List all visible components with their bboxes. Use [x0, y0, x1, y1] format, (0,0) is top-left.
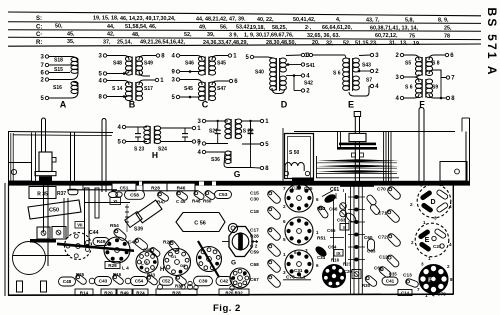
svg-text:E: E — [348, 100, 354, 110]
svg-text:39,: 39, — [207, 32, 215, 38]
svg-text:25,14,: 25,14, — [117, 40, 132, 46]
svg-text:S48: S48 — [113, 61, 122, 67]
svg-text:II: II — [343, 225, 346, 230]
svg-text:R28: R28 — [108, 263, 117, 268]
svg-text:49,: 49, — [199, 24, 207, 30]
svg-text:C78: C78 — [437, 292, 446, 298]
svg-text:S49: S49 — [144, 61, 153, 67]
svg-text:S7: S7 — [366, 78, 372, 84]
svg-text:S40: S40 — [255, 70, 264, 76]
svg-text:C63: C63 — [337, 218, 346, 223]
svg-text:43, 7,: 43, 7, — [366, 17, 380, 23]
svg-text:31,: 31, — [389, 41, 397, 47]
svg-text:Fig. 2: Fig. 2 — [213, 303, 241, 314]
svg-text:60,72,12,: 60,72,12, — [375, 33, 398, 39]
svg-text:S45: S45 — [217, 61, 226, 67]
svg-text:S43: S43 — [362, 63, 371, 69]
svg-text:B: B — [129, 100, 136, 110]
svg-text:R49: R49 — [97, 239, 106, 245]
svg-text:19, 15, 18,: 19, 15, 18, — [93, 16, 119, 22]
svg-text:R20: R20 — [104, 290, 113, 295]
svg-text:D: D — [281, 100, 288, 110]
svg-text:S:: S: — [36, 16, 42, 22]
svg-text:3: 3 — [283, 270, 286, 275]
svg-text:44, 48,21,42, 47, 39.: 44, 48,21,42, 47, 39. — [196, 17, 246, 23]
svg-text:7: 7 — [283, 186, 286, 191]
svg-text:VII: VII — [77, 223, 82, 228]
svg-text:C15: C15 — [250, 191, 259, 197]
svg-text:S24: S24 — [158, 147, 167, 153]
svg-text:R25: R25 — [76, 272, 85, 277]
svg-text:R62: R62 — [317, 206, 326, 211]
svg-text:19,18,: 19,18, — [250, 25, 265, 31]
svg-text:4: 4 — [449, 204, 452, 209]
svg-text:3 9,: 3 9, — [229, 32, 238, 38]
svg-text:S 14: S 14 — [112, 86, 123, 92]
svg-text:C50: C50 — [49, 208, 59, 214]
svg-text:A: A — [60, 100, 67, 110]
svg-text:L 3: L 3 — [141, 261, 148, 266]
svg-text:C72: C72 — [378, 235, 387, 241]
svg-text:C41: C41 — [386, 279, 395, 284]
svg-text:66,64,61,20,: 66,64,61,20, — [322, 25, 352, 31]
svg-text:R51: R51 — [317, 236, 326, 242]
svg-text:5,8,: 5,8, — [405, 18, 414, 24]
svg-text:C64: C64 — [328, 245, 337, 250]
svg-text:C63: C63 — [367, 249, 376, 254]
svg-text:R16: R16 — [331, 258, 340, 263]
svg-text:R:: R: — [36, 40, 42, 46]
svg-text:S 6: S 6 — [333, 71, 341, 77]
svg-text:1,: 1, — [244, 32, 249, 38]
svg-text:25,: 25, — [444, 26, 452, 32]
svg-text:C35: C35 — [389, 272, 397, 277]
svg-text:S 8: S 8 — [432, 61, 440, 67]
svg-text:46, 14,23, 49,17,30,24,: 46, 14,23, 49,17,30,24, — [120, 16, 176, 22]
svg-text:C28: C28 — [250, 234, 259, 240]
svg-text:3: 3 — [421, 262, 424, 267]
svg-text:20,: 20, — [312, 40, 320, 46]
svg-text:19.: 19. — [413, 41, 421, 47]
svg-text:1: 1 — [316, 230, 319, 235]
svg-text:R28: R28 — [172, 290, 181, 295]
svg-text:S5: S5 — [405, 61, 411, 67]
svg-text:3: 3 — [441, 182, 444, 187]
svg-text:3: 3 — [434, 216, 437, 221]
svg-text:C25: C25 — [304, 186, 313, 191]
svg-text:C43: C43 — [99, 279, 108, 284]
svg-text:R48: R48 — [192, 199, 201, 204]
svg-text:2: 2 — [411, 240, 414, 245]
svg-text:C23: C23 — [292, 186, 301, 191]
svg-text:4: 4 — [432, 293, 435, 298]
svg-text:S45: S45 — [184, 86, 193, 92]
svg-text:40, 22,: 40, 22, — [257, 17, 274, 23]
svg-text:7: 7 — [417, 287, 420, 292]
svg-text:C67: C67 — [250, 277, 259, 283]
svg-text:S47: S47 — [217, 86, 226, 92]
svg-text:49,21,26,54,16,42,: 49,21,26,54,16,42, — [140, 40, 185, 46]
svg-text:XI: XI — [113, 199, 117, 204]
svg-text:H: H — [152, 150, 158, 160]
svg-text:32,65, 36, 63.: 32,65, 36, 63. — [307, 33, 340, 39]
svg-text:IX: IX — [336, 251, 340, 256]
svg-text:58,25,: 58,25, — [272, 25, 287, 31]
svg-text:51,15,23,: 51,15,23, — [355, 41, 378, 47]
svg-text:C44: C44 — [89, 230, 99, 236]
svg-text:5: 5 — [420, 183, 423, 188]
svg-text:2·,: 2·, — [305, 25, 312, 31]
svg-text:56,: 56, — [220, 25, 228, 31]
svg-text:75: 75 — [409, 33, 415, 39]
svg-text:2: 2 — [410, 202, 413, 207]
svg-text:1: 1 — [425, 293, 428, 298]
svg-text:37,: 37, — [103, 39, 111, 45]
svg-text:R24: R24 — [136, 290, 145, 295]
svg-text:C 2: C 2 — [250, 244, 258, 250]
svg-text:R39: R39 — [175, 284, 184, 289]
svg-text:32,: 32, — [326, 40, 334, 46]
svg-text:51,58,54, 46,: 51,58,54, 46, — [125, 24, 157, 30]
svg-text:C17: C17 — [250, 228, 259, 234]
svg-text:C31: C31 — [294, 268, 303, 273]
svg-text:L 4: L 4 — [122, 266, 129, 272]
svg-text:2: 2 — [283, 204, 286, 209]
svg-text:C:: C: — [36, 24, 42, 30]
svg-text:48,: 48, — [132, 32, 140, 38]
svg-text:G: G — [231, 260, 236, 267]
svg-text:C71: C71 — [378, 211, 387, 217]
svg-text:24,36,33,47,48,29,: 24,36,33,47,48,29, — [203, 40, 248, 46]
svg-text:C52: C52 — [162, 279, 171, 284]
svg-text:S39: S39 — [134, 227, 143, 233]
svg-text:C13: C13 — [403, 273, 412, 279]
svg-text:50,41,42,: 50,41,42, — [293, 17, 316, 23]
svg-text:S36: S36 — [211, 157, 220, 163]
svg-text:13,: 13, — [400, 41, 408, 47]
svg-text:C70: C70 — [377, 187, 386, 193]
svg-text:S42: S42 — [304, 81, 313, 87]
svg-text:S15: S15 — [54, 67, 63, 73]
svg-text:28,30,48,50,: 28,30,48,50, — [266, 40, 296, 46]
svg-text:1: 1 — [283, 252, 286, 257]
svg-text:C39: C39 — [199, 279, 208, 285]
svg-text:S16: S16 — [53, 85, 62, 91]
svg-text:R 35: R 35 — [37, 192, 48, 198]
svg-text:C·: C· — [36, 32, 42, 38]
svg-text:C30: C30 — [250, 197, 259, 203]
svg-text:C18: C18 — [250, 209, 259, 215]
svg-text:C61: C61 — [330, 187, 339, 193]
svg-text:C48: C48 — [63, 279, 72, 284]
svg-text:C 56: C 56 — [194, 221, 206, 227]
svg-text:9,: 9, — [250, 33, 255, 39]
svg-text:4: 4 — [449, 242, 452, 247]
svg-text:8, 9,: 8, 9, — [438, 18, 449, 24]
svg-text:R14: R14 — [80, 290, 89, 295]
svg-text:S 23: S 23 — [134, 147, 145, 153]
svg-text:30,17,69,67,76,: 30,17,69,67,76, — [256, 33, 294, 39]
svg-text:52,: 52, — [343, 40, 351, 46]
svg-text:R28: R28 — [151, 186, 160, 192]
svg-text:6: 6 — [283, 219, 286, 224]
svg-text:S21: S21 — [209, 129, 218, 135]
svg-text:S 50: S 50 — [289, 150, 300, 156]
svg-text:60,38,71,41, 13, 14,: 60,38,71,41, 13, 14, — [370, 25, 418, 31]
svg-text:C65: C65 — [327, 228, 336, 233]
svg-text:G8: G8 — [180, 263, 186, 268]
svg-text:R33: R33 — [147, 273, 156, 278]
svg-text:C54: C54 — [135, 279, 144, 284]
svg-text:H: H — [160, 267, 164, 273]
svg-text:BS 571 A: BS 571 A — [485, 8, 499, 77]
svg-text:6: 6 — [316, 263, 319, 268]
svg-text:R49: R49 — [120, 290, 129, 295]
svg-text:D: D — [430, 199, 435, 206]
svg-text:5: 5 — [283, 237, 286, 242]
svg-text:52,: 52, — [184, 32, 192, 38]
svg-text:R30: R30 — [362, 283, 371, 288]
svg-text:5: 5 — [294, 250, 297, 255]
svg-text:1: 1 — [423, 220, 426, 225]
svg-text:S 22: S 22 — [243, 129, 254, 135]
svg-text:44,: 44, — [107, 24, 115, 30]
svg-text:S17: S17 — [144, 86, 153, 92]
svg-text:S46: S46 — [185, 61, 194, 67]
svg-text:R37: R37 — [57, 191, 66, 197]
svg-text:S 6: S 6 — [405, 85, 413, 91]
svg-text:C59: C59 — [250, 250, 259, 256]
svg-text:R47: R47 — [157, 200, 166, 205]
svg-text:C66: C66 — [329, 207, 338, 212]
svg-text:E: E — [425, 237, 430, 244]
svg-text:42,: 42, — [107, 32, 115, 38]
svg-text:8: 8 — [450, 277, 453, 282]
svg-text:S9: S9 — [432, 85, 438, 91]
svg-text:F: F — [428, 278, 432, 284]
svg-text:C42: C42 — [220, 279, 229, 284]
svg-text:S18: S18 — [54, 58, 63, 64]
svg-text:C: C — [202, 100, 209, 110]
svg-text:S41: S41 — [306, 63, 315, 69]
svg-text:G1: G1 — [171, 254, 177, 259]
svg-text:50,: 50, — [55, 24, 63, 30]
svg-text:R60: R60 — [203, 199, 212, 204]
svg-text:3: 3 — [305, 248, 308, 253]
svg-text:C58: C58 — [130, 193, 139, 199]
svg-text:6: 6 — [316, 197, 319, 202]
svg-text:R16: R16 — [113, 272, 122, 277]
svg-text:G: G — [234, 169, 241, 179]
svg-text:C14: C14 — [401, 291, 410, 296]
svg-text:45,: 45, — [67, 31, 75, 37]
svg-text:C68: C68 — [250, 262, 259, 268]
svg-text:C 45: C 45 — [176, 199, 186, 204]
svg-text:I: I — [343, 188, 344, 193]
svg-text:R20 R32: R20 R32 — [225, 290, 243, 295]
svg-text:2: 2 — [447, 264, 450, 269]
svg-text:4,: 4, — [336, 17, 341, 23]
svg-text:35,: 35, — [67, 39, 75, 45]
svg-text:78: 78 — [444, 34, 450, 40]
svg-text:1: 1 — [428, 256, 431, 261]
svg-text:C53: C53 — [219, 192, 228, 198]
